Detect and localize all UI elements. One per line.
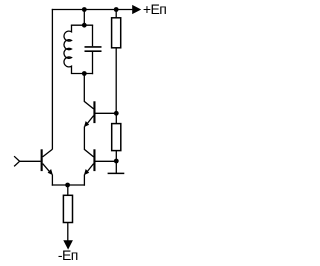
capacitor C1 plates: [85, 46, 102, 48]
transistor Q3 base bar: [93, 101, 95, 123]
ground (chassis) bar: [108, 172, 125, 174]
input terminal chevron: [14, 156, 20, 166]
resistor R2: [112, 124, 121, 151]
node A junction dot: [114, 111, 119, 116]
junction dot emitters: [65, 183, 70, 188]
wire tank bottom to Q3 collector: [84, 74, 93, 109]
power arrow +En: [132, 5, 141, 14]
node B junction dot: [114, 159, 119, 164]
wire node A to R2: [115, 113, 117, 123]
wire node B to chassis: [115, 161, 117, 173]
wire rail to tank top: [83, 10, 85, 26]
transistor Q2 base wire to node B: [96, 160, 115, 162]
wire R2 to node B: [115, 151, 117, 161]
svg-text:-Еп: -Еп: [58, 247, 78, 263]
wire top supply rail: [52, 9, 133, 11]
wire emitter bus to tail resistor: [67, 185, 69, 195]
resistor R3 tail: [63, 195, 72, 222]
junction dot tank bottom: [82, 71, 87, 76]
transistor Q3 base wire to node A: [96, 112, 115, 114]
junction dot tank top: [82, 23, 87, 28]
junction dot rail at R1: [114, 7, 119, 12]
wire R1 to node A: [115, 48, 117, 114]
power arrow -En: [63, 240, 73, 249]
junction dot on rail at tank: [82, 7, 87, 12]
wire input to Q1 base: [20, 160, 41, 162]
wire Q3 emitter to Q2 collector: [84, 127, 93, 157]
wire tank top bus: [71, 24, 93, 26]
wire R3 to -En arrow: [67, 223, 69, 241]
transistor Q1 collector: [43, 149, 53, 157]
resistor R1: [112, 18, 121, 48]
transistor Q3 emitter: [85, 116, 93, 127]
transistor Q1 base bar: [41, 149, 43, 171]
inductor L1: [64, 25, 72, 74]
wire rail to R1: [115, 10, 117, 18]
wire Q2 emitter down to emitter bus: [83, 175, 85, 186]
transistor Q2 emitter: [85, 164, 93, 175]
capacitor C1 bottom lead: [92, 52, 94, 74]
transistor Q2 base bar: [93, 149, 95, 171]
wire Q1 emitter down to emitter bus: [51, 175, 53, 186]
wire left vertical (Q1 collector to rail): [51, 9, 53, 150]
wire tank bottom bus: [71, 73, 93, 75]
transistor Q1 emitter: [43, 164, 52, 175]
svg-text:+Еп: +Еп: [143, 1, 166, 17]
wire emitter bus: [52, 184, 85, 186]
capacitor C1 top lead: [92, 25, 94, 47]
